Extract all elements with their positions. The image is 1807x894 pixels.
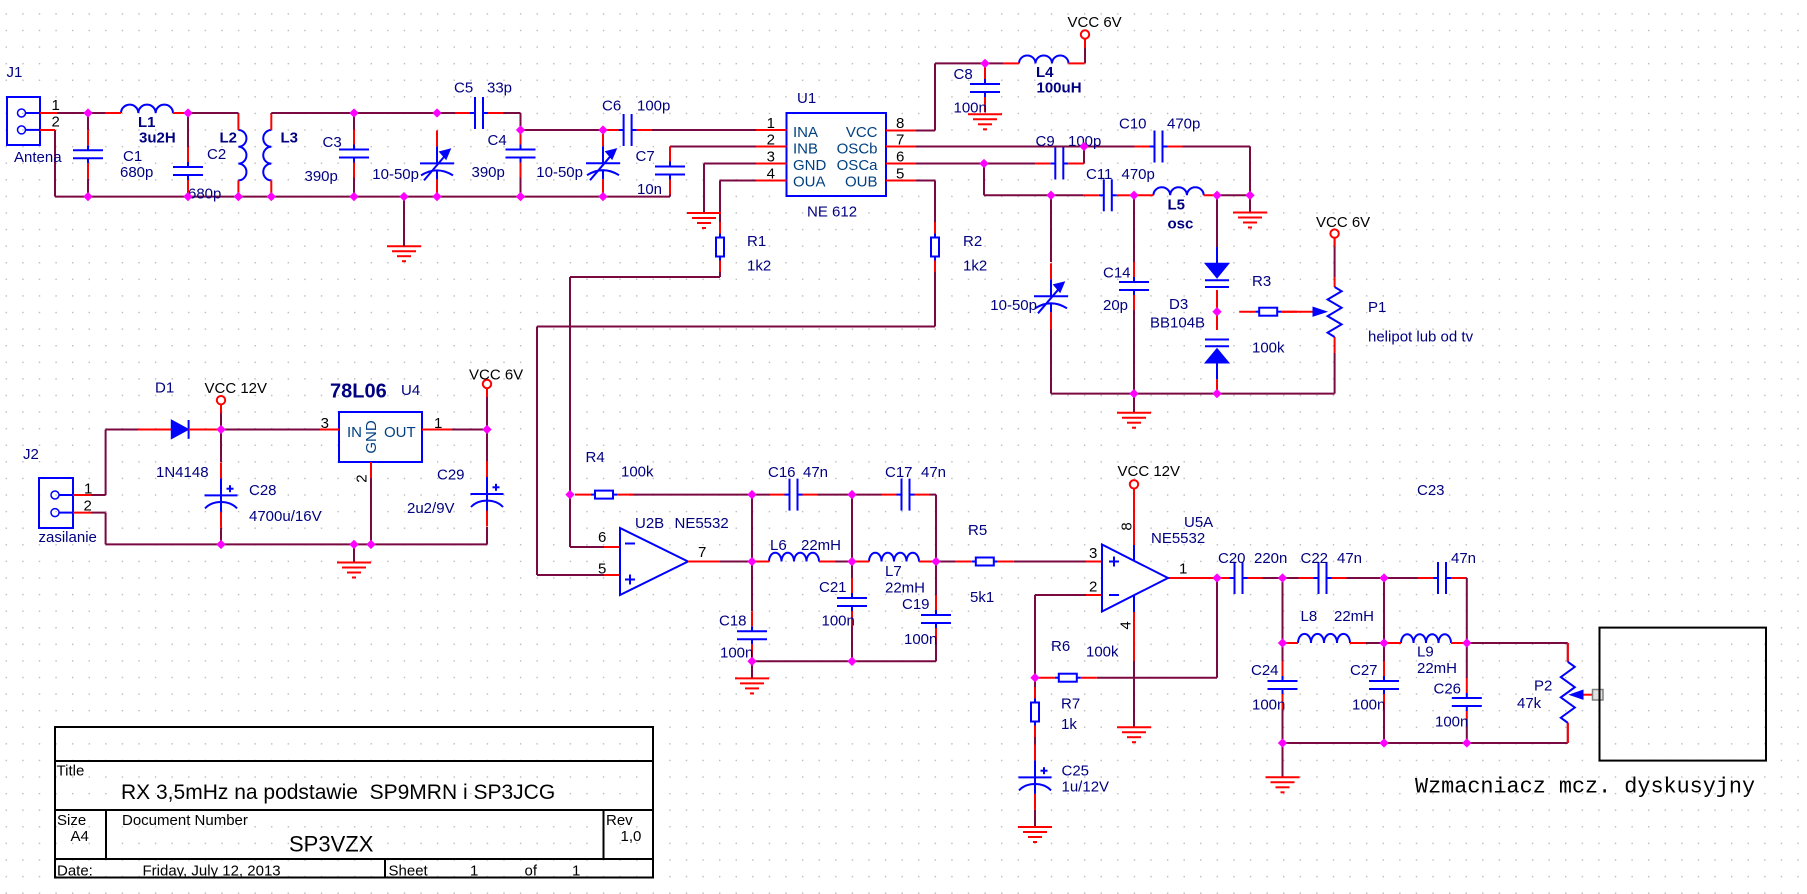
- label U2B: [635, 515, 664, 532]
- label L6: [770, 537, 787, 554]
- value 470p (C10): [1167, 116, 1200, 133]
- svg-text:8: 8: [1119, 522, 1136, 530]
- svg-text:L3: L3: [281, 130, 299, 147]
- note Wzmacniacz: [1415, 775, 1755, 800]
- svg-text:100n: 100n: [1435, 714, 1468, 731]
- svg-text:2: 2: [84, 498, 92, 515]
- pin number 1 (U5A): [1179, 561, 1187, 578]
- ground (filter1): [735, 678, 769, 693]
- wire: [1283, 577, 1299, 579]
- wire: [1383, 578, 1385, 643]
- wire: [1282, 743, 1284, 777]
- value 10n: [637, 181, 662, 198]
- svg-text:680p: 680p: [120, 164, 153, 181]
- svg-text:VCC 6V: VCC 6V: [1068, 14, 1122, 31]
- svg-text:10-50p: 10-50p: [536, 164, 583, 181]
- inductor L6: [753, 553, 835, 562]
- wire: [604, 574, 620, 576]
- svg-text:390p: 390p: [305, 168, 338, 185]
- wire: [237, 113, 239, 114]
- junction: [234, 193, 242, 201]
- svg-text:2: 2: [1089, 579, 1097, 596]
- svg-text:C1: C1: [123, 148, 142, 165]
- wire: [220, 405, 222, 462]
- wire: [835, 561, 852, 563]
- label C16: [768, 464, 796, 481]
- wire: [1216, 195, 1218, 247]
- wire: [919, 561, 936, 563]
- svg-text:VCC: VCC: [846, 124, 878, 141]
- label D1: [155, 380, 174, 397]
- wire: [752, 561, 753, 563]
- wire: [1283, 723, 1568, 743]
- power VCC 6V (U4): [469, 367, 523, 398]
- wire: [1034, 678, 1036, 688]
- svg-text:390p: 390p: [472, 164, 505, 181]
- diode D1: [138, 420, 221, 439]
- svg-text:SP3VZX: SP3VZX: [289, 832, 374, 857]
- inductor L4: [1003, 55, 1085, 63]
- svg-text:2u2/9V: 2u2/9V: [407, 500, 455, 517]
- wire: [370, 478, 372, 544]
- capacitor C8: [970, 64, 1000, 112]
- svg-text:47n: 47n: [803, 464, 828, 481]
- value 390p: [472, 164, 505, 181]
- svg-text:R2: R2: [963, 233, 982, 250]
- junction: [599, 193, 607, 201]
- junction: [848, 657, 856, 665]
- wire: [1134, 194, 1137, 196]
- wire: [91, 430, 138, 496]
- op-amp U5A: [1102, 545, 1168, 612]
- label NE5532 (U5A): [1151, 530, 1205, 547]
- svg-text:C17: C17: [885, 464, 913, 481]
- value 100n (C8): [954, 100, 987, 117]
- junction: [84, 193, 92, 201]
- capacitor C2: [173, 147, 203, 195]
- svg-text:33p: 33p: [487, 80, 512, 97]
- value 100k (R6): [1086, 644, 1119, 661]
- svg-text:C24: C24: [1251, 662, 1279, 679]
- value 5k1: [970, 589, 994, 606]
- wire: [1133, 545, 1135, 561]
- wire: [604, 546, 620, 548]
- svg-text:1: 1: [84, 481, 92, 498]
- wire: [1466, 643, 1468, 678]
- power VCC 12V (U5A): [1118, 463, 1181, 497]
- svg-text:1: 1: [767, 115, 775, 132]
- wire: [720, 561, 752, 563]
- svg-text:C27: C27: [1350, 662, 1378, 679]
- svg-text:R4: R4: [586, 449, 605, 466]
- value 100n (C21): [822, 613, 855, 630]
- svg-text:U4: U4: [401, 382, 420, 399]
- wire: [1263, 577, 1283, 579]
- ground (U1 pin3): [687, 213, 721, 228]
- wire: [221, 429, 320, 431]
- svg-text:C20: C20: [1218, 550, 1246, 567]
- wire: [669, 195, 671, 197]
- value 1k2: [747, 258, 771, 275]
- amplifier block box: [1600, 628, 1767, 761]
- junction: [184, 193, 192, 201]
- label C8: [954, 66, 973, 83]
- wire: [1097, 578, 1217, 678]
- label R5: [968, 522, 987, 539]
- svg-text:NE5532: NE5532: [675, 515, 729, 532]
- tb sheet 1: [470, 863, 478, 880]
- tb Title: [57, 763, 85, 780]
- label C19: [902, 596, 930, 613]
- label osc: [1168, 216, 1194, 233]
- svg-text:1,0: 1,0: [621, 828, 642, 845]
- junction: [980, 159, 988, 167]
- wire: [1132, 194, 1134, 196]
- resistor R4: [575, 491, 633, 499]
- wire: [1133, 195, 1135, 262]
- junction: [1278, 639, 1286, 647]
- pin number 6: [598, 529, 606, 546]
- value 22mH (L7): [885, 580, 925, 597]
- svg-text:L2: L2: [220, 130, 238, 147]
- svg-text:100k: 100k: [621, 464, 654, 481]
- value 22mH (L9): [1417, 660, 1457, 677]
- svg-text:C18: C18: [719, 613, 747, 630]
- svg-text:7: 7: [896, 132, 904, 149]
- svg-text:L5: L5: [1168, 197, 1186, 214]
- svg-text:Friday, July 12, 2013: Friday, July 12, 2013: [143, 863, 281, 880]
- resistor R2: [931, 222, 939, 272]
- wire: [1133, 394, 1135, 413]
- svg-text:C4: C4: [488, 132, 507, 149]
- wire: [88, 196, 670, 198]
- wire: [1282, 709, 1284, 743]
- label J1: [7, 64, 23, 81]
- svg-text:L1: L1: [138, 114, 156, 131]
- capacitor C4: [506, 130, 536, 178]
- svg-text:C6: C6: [602, 98, 621, 115]
- inductor L7: [853, 553, 935, 562]
- wire: [1084, 48, 1086, 63]
- svg-text:C26: C26: [1434, 681, 1462, 698]
- trimmer capacitor 10-50p (osc): [1034, 263, 1068, 329]
- wire: [1334, 238, 1336, 277]
- capacitor C3: [339, 130, 369, 178]
- svg-text:C7: C7: [636, 148, 655, 165]
- value 390p: [305, 168, 338, 185]
- capacitor C23: [1418, 562, 1466, 594]
- capacitor C5: [455, 97, 503, 129]
- resistor R1: [716, 222, 724, 272]
- capacitor C28: [205, 462, 238, 528]
- wire: [437, 112, 455, 114]
- svg-text:C10: C10: [1119, 116, 1147, 133]
- wire: [751, 495, 753, 562]
- wire: [1133, 612, 1135, 661]
- wire: [669, 147, 671, 151]
- label C26: [1434, 681, 1462, 698]
- label R4: [586, 449, 605, 466]
- wire: [1220, 194, 1250, 196]
- svg-text:470p: 470p: [1122, 166, 1155, 183]
- svg-text:P1: P1: [1368, 299, 1386, 316]
- svg-text:C8: C8: [954, 66, 973, 83]
- label Antena: [14, 149, 62, 166]
- junction: [1031, 674, 1039, 682]
- wire: [1034, 595, 1036, 678]
- wire: [720, 180, 756, 182]
- tb of: [525, 863, 538, 880]
- svg-text:1: 1: [470, 863, 478, 880]
- junction: [1213, 308, 1221, 316]
- label zasilanie: [39, 529, 97, 546]
- resistor R6: [1039, 674, 1097, 682]
- value BB104B: [1150, 315, 1205, 332]
- svg-text:OUB: OUB: [845, 174, 878, 191]
- svg-text:1: 1: [1179, 561, 1187, 578]
- tb A4: [71, 828, 89, 845]
- label NE 612: [807, 204, 857, 221]
- capacitor C18: [737, 611, 767, 659]
- wire: [984, 164, 1051, 196]
- wire: [354, 527, 487, 544]
- svg-text:10-50p: 10-50p: [990, 297, 1037, 314]
- value 100p (C9): [1068, 133, 1101, 150]
- value 33p: [487, 80, 512, 97]
- label P2: [1534, 678, 1552, 695]
- svg-text:U2B: U2B: [635, 515, 664, 532]
- resistor R3: [1239, 308, 1297, 316]
- value 4700u/16V: [249, 508, 322, 525]
- junction: [1047, 191, 1055, 199]
- svg-text:C3: C3: [323, 134, 342, 151]
- svg-text:BB104B: BB104B: [1150, 315, 1205, 332]
- value 100k (R3): [1252, 340, 1285, 357]
- label 78L06: [330, 381, 387, 403]
- value 47n (C22): [1337, 550, 1362, 567]
- label C7: [636, 148, 655, 165]
- svg-text:100n: 100n: [904, 631, 937, 648]
- wire: [818, 494, 853, 496]
- svg-text:3: 3: [321, 415, 329, 432]
- junction: [599, 126, 607, 134]
- wire: [703, 164, 705, 214]
- wire: [1084, 39, 1086, 48]
- svg-text:L4: L4: [1036, 64, 1054, 81]
- wire: [271, 112, 354, 114]
- wire: [1183, 147, 1251, 196]
- wire: [503, 113, 521, 130]
- svg-text:RX 3,5mHz na podstawie SP9MRN: RX 3,5mHz na podstawie SP9MRN i SP3JCG: [121, 781, 555, 804]
- svg-text:680p: 680p: [188, 186, 221, 203]
- wire: [852, 494, 882, 496]
- junction: [350, 193, 358, 201]
- svg-text:D1: D1: [155, 380, 174, 397]
- svg-text:C21: C21: [819, 579, 847, 596]
- label L3: [281, 130, 299, 147]
- svg-text:NE 612: NE 612: [807, 204, 857, 221]
- wire: [1086, 561, 1102, 563]
- svg-text:C22: C22: [1301, 550, 1329, 567]
- svg-text:zasilanie: zasilanie: [39, 529, 97, 546]
- svg-text:helipot lub od tv: helipot lub od tv: [1368, 329, 1474, 346]
- value 1k: [1061, 716, 1077, 733]
- pin number 2 (J2): [84, 498, 92, 515]
- svg-text:D3: D3: [1169, 296, 1188, 313]
- svg-text:OSCa: OSCa: [837, 157, 879, 174]
- svg-text:1: 1: [434, 415, 442, 432]
- wire: [1282, 578, 1284, 643]
- wire: [1249, 195, 1251, 212]
- trimmer capacitor 10-50p (2): [586, 130, 620, 196]
- capacitor C11: [1084, 179, 1132, 211]
- wire: [537, 272, 935, 575]
- ground (filter2): [1266, 777, 1300, 792]
- capacitor C16: [770, 479, 818, 511]
- wire: [1467, 643, 1568, 662]
- capacitor C22: [1299, 562, 1347, 594]
- label C10: [1119, 116, 1147, 133]
- trimmer capacitor 10-50p: [420, 130, 454, 196]
- junction: [1278, 739, 1286, 747]
- capacitor C10: [1135, 131, 1183, 163]
- svg-text:5: 5: [896, 166, 904, 183]
- ground (osc bottom): [1117, 413, 1151, 428]
- junction: [981, 59, 989, 67]
- ground (power): [337, 563, 371, 578]
- svg-text:VCC 12V: VCC 12V: [1118, 463, 1181, 480]
- potentiometer P1: [1281, 277, 1342, 353]
- wire: [935, 562, 937, 596]
- junction: [566, 491, 574, 499]
- svg-text:C16: C16: [768, 464, 796, 481]
- label C17: [885, 464, 913, 481]
- label C20: [1218, 550, 1246, 567]
- svg-text:6: 6: [896, 149, 904, 166]
- junction: [1130, 390, 1138, 398]
- power VCC 12V (D1): [205, 380, 268, 413]
- svg-text:22mH: 22mH: [1417, 660, 1457, 677]
- label L9: [1417, 644, 1434, 661]
- junction: [848, 491, 856, 499]
- svg-text:Wzmacniacz mcz. dyskusyjny: Wzmacniacz mcz. dyskusyjny: [1415, 775, 1755, 800]
- junction: [1380, 574, 1388, 582]
- label R3: [1252, 273, 1271, 290]
- junction: [400, 193, 408, 201]
- label C3: [323, 134, 342, 151]
- wire: [1334, 353, 1336, 394]
- value 100p: [637, 98, 670, 115]
- wire: [1082, 147, 1085, 164]
- resistor R5: [956, 558, 1014, 566]
- label P1: [1368, 299, 1386, 316]
- svg-text:100n: 100n: [720, 645, 753, 662]
- wire: [719, 181, 721, 223]
- wire: [354, 112, 437, 114]
- capacitor C26: [1452, 678, 1482, 726]
- svg-text:78L06: 78L06: [330, 381, 387, 403]
- title block frame: [55, 727, 653, 878]
- svg-text:J1: J1: [7, 64, 23, 81]
- connector J2: [39, 478, 91, 528]
- wire: [1133, 596, 1135, 613]
- svg-text:6: 6: [598, 529, 606, 546]
- svg-text:1k2: 1k2: [963, 258, 987, 275]
- tb Sheet: [389, 863, 429, 880]
- wire: [916, 146, 1135, 148]
- svg-text:Antena: Antena: [14, 149, 62, 166]
- wire: [930, 495, 937, 562]
- label R2: [963, 233, 982, 250]
- junction: [932, 557, 940, 565]
- svg-text:L8: L8: [1301, 608, 1318, 625]
- svg-text:A4: A4: [71, 828, 89, 845]
- wire: [40, 112, 105, 114]
- label C2: [207, 146, 226, 163]
- wire: [220, 528, 222, 544]
- wire: [851, 626, 853, 661]
- svg-text:Document Number: Document Number: [122, 812, 248, 829]
- tb Size: [57, 812, 86, 829]
- capacitor C25: [1019, 744, 1052, 810]
- wire: [751, 661, 753, 678]
- junction: [367, 540, 375, 548]
- svg-text:R1: R1: [747, 233, 766, 250]
- label C1: [123, 148, 142, 165]
- junction: [1080, 142, 1088, 150]
- svg-text:R6: R6: [1051, 638, 1070, 655]
- svg-text:Rev: Rev: [606, 812, 633, 829]
- ground (C8): [968, 114, 1002, 129]
- junction: [1463, 739, 1471, 747]
- wire: [87, 178, 89, 196]
- wire: [521, 129, 604, 131]
- junction: [1213, 390, 1221, 398]
- wire: [105, 112, 121, 114]
- label R1: [747, 233, 766, 250]
- wire: [1350, 642, 1384, 644]
- pin number 2: [52, 114, 60, 131]
- resistor R7: [1031, 687, 1039, 737]
- junction: [848, 557, 856, 565]
- junction: [267, 193, 275, 201]
- junction: [1380, 739, 1388, 747]
- wire: [1347, 577, 1385, 579]
- wire: [403, 197, 405, 247]
- label R7: [1061, 696, 1080, 713]
- junction: [1213, 191, 1221, 199]
- label C11: [1086, 166, 1112, 183]
- svg-text:7: 7: [698, 544, 706, 561]
- junction: [1463, 639, 1471, 647]
- ground (C25): [1018, 827, 1052, 842]
- voltage regulator U4 78L06: [320, 412, 452, 483]
- wire: [1465, 578, 1468, 643]
- svg-text:3: 3: [1089, 545, 1097, 562]
- power VCC 6V (L4): [1068, 14, 1122, 48]
- svg-text:C25: C25: [1062, 763, 1090, 780]
- svg-text:3u2H: 3u2H: [139, 130, 176, 147]
- wire: [1051, 194, 1084, 196]
- capacitor C20: [1215, 562, 1263, 594]
- junction: [350, 109, 358, 117]
- junction: [516, 126, 524, 134]
- svg-text:2: 2: [52, 114, 60, 131]
- wire: [570, 495, 604, 547]
- wire: [752, 494, 770, 496]
- svg-text:Title: Title: [57, 763, 85, 780]
- svg-text:OUA: OUA: [793, 174, 826, 191]
